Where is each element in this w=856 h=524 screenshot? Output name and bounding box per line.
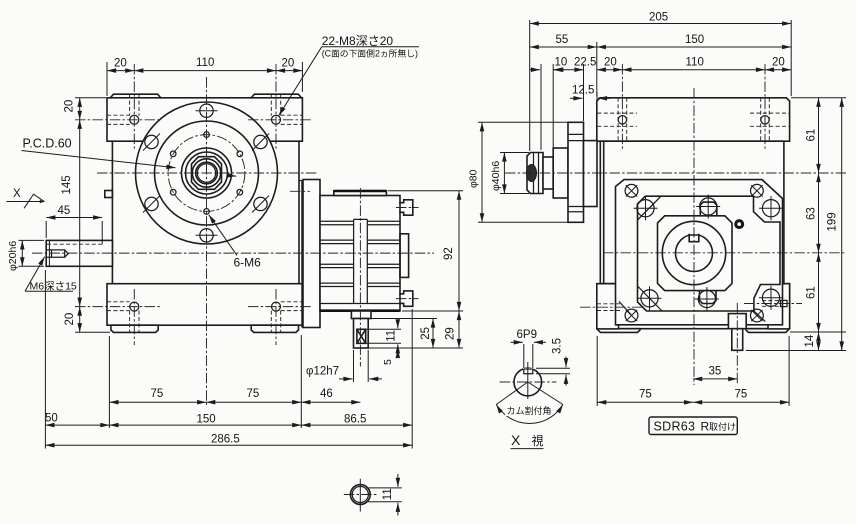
right corner block on flange [768,284,790,329]
clamp hole [751,309,764,322]
cross tapped holes on ring [637,200,654,217]
feet [598,329,640,333]
phi20h6 [19,240,45,266]
12.5 [584,92,598,139]
svg-text:150: 150 [197,413,216,425]
top middle tab [700,202,717,216]
bore circle with keyway [676,235,713,272]
5 [368,347,401,349]
top flange bolt right [272,115,281,124]
svg-text:20: 20 [282,58,295,70]
bottom output shaft phi12h7 [354,319,369,349]
ring B [553,148,568,198]
92 [388,190,463,192]
right middle bearing boss [400,234,409,278]
svg-text:22-M8深さ20: 22-M8深さ20 [322,34,394,48]
50/150/86.5 [45,424,109,426]
286.5 [45,444,412,446]
bottom cam shaft stub [728,314,746,329]
svg-text:6P9: 6P9 [517,329,537,341]
bottom mounting flange [107,284,302,326]
right boss on top flange [251,94,301,98]
3.5 dimension [536,368,570,374]
svg-text:20: 20 [772,57,785,69]
svg-text:(C面の下面側2ヵ所無し): (C面の下面側2ヵ所無し) [322,48,418,59]
side tab right edge [781,300,788,306]
housing cap [334,191,387,196]
svg-text:75: 75 [735,388,748,400]
svg-text:カム割付角: カム割付角 [507,405,552,416]
M6 hole [204,209,210,215]
svg-text:φ20h6: φ20h6 [7,241,19,271]
dial inner circle [155,121,259,225]
29 [371,311,463,348]
svg-text:45: 45 [58,205,71,217]
svg-text:150: 150 [685,34,704,46]
bottom right bolt on housing [400,291,413,306]
55 / 150 [596,42,598,96]
cam angle label [505,405,552,417]
svg-text:X: X [511,432,521,448]
svg-text:35: 35 [709,366,722,378]
ring A [543,157,553,189]
hidden: left face tapped hole [597,304,620,311]
top mounting flange strip [107,94,302,141]
slashed hole [145,197,158,210]
top right bolt on housing [400,200,413,215]
11 keyway [366,329,401,343]
svg-text:5: 5 [382,359,394,365]
bottom flange [597,284,790,329]
main body [600,141,784,284]
svg-text:205: 205 [649,12,668,24]
svg-text:SDR63: SDR63 [654,420,696,434]
M6 hole [170,189,176,195]
svg-text:取付け: 取付け [709,422,736,432]
199 [841,98,843,351]
12.5 spacer [584,141,598,207]
svg-text:3.5: 3.5 [552,338,564,354]
input shaft assembly: phi40h6 tip [527,153,543,194]
bore frame (octagon) [658,216,733,291]
svg-text:22.5: 22.5 [574,57,596,69]
svg-text:視: 視 [532,433,544,448]
clamp hole [751,184,764,197]
bore outer circle [662,221,725,284]
svg-text:11: 11 [382,488,394,500]
angle arc [496,405,563,424]
center hole on shaft tip [527,165,537,182]
svg-text:11: 11 [386,330,398,342]
input shaft phi20h6 [46,240,112,266]
worm housing block [320,196,400,312]
45 [46,221,102,242]
svg-text:199: 199 [827,212,839,231]
svg-text:20: 20 [64,100,76,113]
svg-text:145: 145 [61,175,73,194]
face ring (rotating flange) [638,196,781,311]
top flange bolt left [130,115,139,124]
slashed hole [254,197,267,210]
left boss on top flange [110,94,161,98]
svg-text:29: 29 [445,327,457,340]
svg-text:63: 63 [806,207,818,220]
hub hexagon [192,157,222,190]
svg-text:φ40h6: φ40h6 [490,161,502,191]
hidden lines: shaft keyway [47,240,102,244]
housing interior rib lines [320,221,354,286]
phi80 flange disc [568,122,584,222]
hidden: flange bolt counterbores [597,113,789,126]
M6 hole [170,151,176,157]
M6 hole [204,132,210,138]
svg-text:P.C.D.60: P.C.D.60 [23,137,72,151]
thin gasket strip [299,181,302,328]
svg-text:20: 20 [114,58,127,70]
ring corner chamfer details [619,196,765,321]
slashed hole [254,135,267,148]
centerlines left view [97,172,317,174]
svg-text:10: 10 [555,57,568,69]
mounting holes on dial (6x) [200,104,213,117]
M6 hole [237,151,243,157]
centerlines right view [505,172,846,174]
205 [530,20,792,151]
clamp hole [625,184,638,197]
top mounting flange [597,98,790,141]
svg-text:6-M6: 6-M6 [234,256,262,270]
svg-text:46: 46 [320,388,333,400]
svg-text:92: 92 [443,247,455,260]
svg-text:86.5: 86.5 [344,413,366,425]
face plate (octagon) [616,180,783,325]
svg-text:20: 20 [604,57,617,69]
bottom output shaft neck [351,311,371,319]
phi40h6 [500,153,529,194]
hidden lines: bottom flange tapped holes [130,311,281,333]
keyway 6P9 [689,233,699,242]
left chain 20/145/20 [75,98,110,332]
hub circles [182,148,232,198]
top 20/110/20 [107,62,302,96]
right chain 61/63/61/14 [746,98,846,351]
svg-text:12.5: 12.5 [572,85,594,97]
svg-text:55: 55 [556,34,569,46]
svg-text:25: 25 [420,327,432,340]
svg-text:110: 110 [686,57,704,69]
hidden lines: top flange tapped holes [130,94,281,115]
main body side edges [112,141,299,284]
75 / 75 right view [597,336,789,406]
left corner block on flange [597,284,619,329]
bottom flange bolt right [272,302,281,311]
svg-text:75: 75 [639,388,652,400]
svg-text:110: 110 [196,57,214,69]
svg-text:61: 61 [806,129,818,142]
P.C.D.60 bolt circle [168,135,245,212]
svg-text:61: 61 [806,286,818,299]
bottom dims 75/75/46 [45,270,412,449]
keyway section on bottom shaft [357,329,366,343]
cam shaft circle [514,368,542,396]
flange bolt slots [618,98,769,141]
svg-text:φ80: φ80 [468,169,480,188]
locating pin (dark) [734,219,744,229]
cam angle fan lines [496,382,563,405]
small tab on left body edge [105,191,113,198]
25 [371,318,437,320]
bottom middle tab [700,291,717,304]
housing interior: center column [320,219,400,303]
svg-text:75: 75 [151,388,164,400]
X view centerlines [500,381,557,383]
clamp hole [625,309,638,322]
svg-text:20: 20 [64,313,76,326]
svg-text:75: 75 [247,388,260,400]
35 [693,378,737,380]
svg-text:14: 14 [804,334,816,347]
svg-text:X: X [13,188,21,200]
M6 hole [237,189,243,195]
output unit side plate (right of body) [303,180,320,328]
svg-text:286.5: 286.5 [211,433,240,445]
phi80 [478,122,570,222]
bottom flange bolt left [130,302,139,311]
left foot [111,325,158,332]
slashed hole [145,135,158,148]
keyway 6P9 in X view [523,368,534,374]
6P9 dimension [524,344,533,368]
svg-text:50: 50 [45,413,58,425]
10 / 22.5 / 20 / 110 / 20 [541,64,584,150]
right foot [251,325,298,332]
svg-text:φ12h7: φ12h7 [306,365,339,377]
M6 tap hole in shaft end [46,250,68,257]
dial flange outer circle [136,102,278,244]
